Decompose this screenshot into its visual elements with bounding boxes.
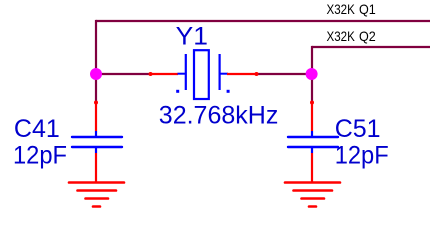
- svg-text:X32K: X32K: [327, 28, 356, 44]
- pin 2 marker dot: [227, 90, 230, 93]
- right plate stub: [220, 73, 228, 75]
- capacitor C51: [288, 101, 389, 183]
- wire net X32K_Q2 horizontal: [312, 46, 430, 48]
- wire node A down to C41 pin: [95, 74, 97, 102]
- ground bar 2: [294, 189, 333, 192]
- svg-text:32.768kHz: 32.768kHz: [159, 101, 279, 129]
- pin 1 end dot: [94, 101, 98, 105]
- top plate stub: [95, 131, 97, 137]
- svg-text:C41: C41: [14, 115, 60, 143]
- pin 2 of C41 (red lead, bottom): [95, 153, 97, 182]
- pin 2 end dot: [255, 72, 259, 76]
- ground bar 4: [309, 205, 316, 208]
- capacitor C41: [13, 101, 122, 183]
- crystal Y1: [149, 23, 279, 130]
- crystal body rectangle: [194, 50, 209, 99]
- ground bar 4: [93, 205, 100, 208]
- node B junction: [306, 68, 318, 80]
- ground (right, under C51): [285, 183, 340, 207]
- ground bar 1: [285, 181, 340, 184]
- pin 2 of Y1 (red lead, right): [227, 73, 257, 75]
- svg-text:Q2: Q2: [359, 28, 376, 44]
- ground bar 3: [86, 197, 109, 200]
- top plate: [288, 136, 338, 138]
- svg-text:Q1: Q1: [359, 1, 376, 17]
- wire node B down to C51 pin: [311, 74, 313, 102]
- right plate: [219, 54, 221, 90]
- top plate: [72, 136, 122, 138]
- svg-text:12pF: 12pF: [13, 142, 67, 170]
- ground bar 3: [302, 197, 325, 200]
- svg-text:Y1: Y1: [176, 23, 208, 51]
- pin 1 of C51 (red lead, top): [311, 102, 313, 131]
- svg-text:X32K: X32K: [327, 1, 356, 17]
- pin 2 of C51 (red lead, bottom): [311, 153, 313, 182]
- bottom plate: [72, 146, 122, 148]
- top plate stub: [311, 131, 313, 137]
- svg-text:C51: C51: [335, 115, 381, 143]
- bottom plate stub: [95, 147, 97, 153]
- ground bar 2: [78, 189, 117, 192]
- pin 1 of Y1 (red lead, left): [150, 73, 178, 75]
- wire net X32K_Q1 vertical drop: [95, 20, 97, 74]
- wire crystal right pin to node B: [257, 73, 312, 75]
- node A junction: [90, 68, 102, 80]
- bottom plate stub: [311, 147, 313, 153]
- pin 1 end dot: [310, 101, 314, 105]
- wire net X32K_Q2 vertical drop: [311, 46, 313, 74]
- ground (left, under C41): [69, 183, 124, 207]
- wire node A to crystal left pin: [96, 73, 150, 75]
- svg-text:12pF: 12pF: [335, 142, 389, 170]
- wire net X32K_Q1 top horizontal: [96, 20, 430, 22]
- left plate stub: [178, 73, 187, 75]
- ground bar 1: [69, 181, 124, 184]
- left plate: [185, 54, 187, 90]
- pin 1 of C41 (red lead, top): [95, 102, 97, 131]
- pin 1 marker dot: [176, 90, 179, 93]
- pin 1 end dot: [149, 72, 153, 76]
- bottom plate: [288, 146, 338, 148]
